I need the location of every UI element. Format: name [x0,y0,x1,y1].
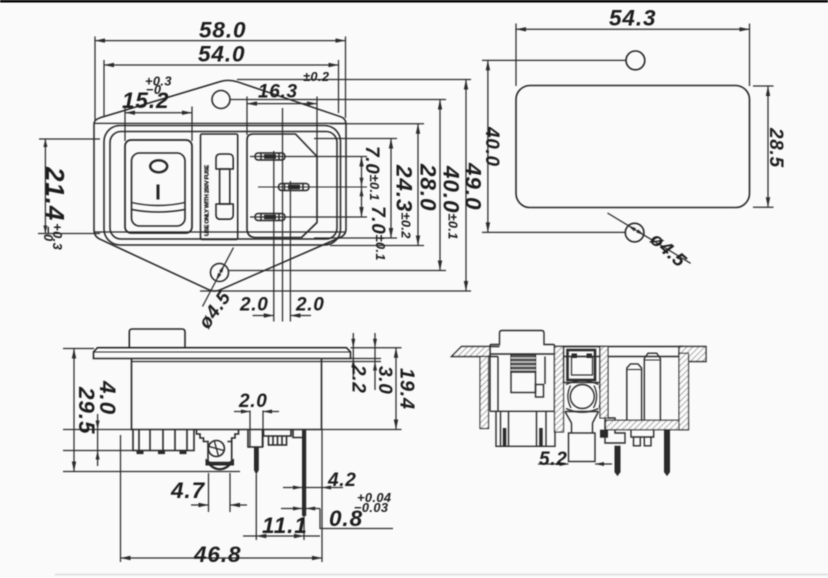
drawer bottom bar [206,460,234,466]
ext hole bottom [229,270,447,272]
fuse holder plate [201,134,238,240]
dim 54.0 [104,64,339,66]
dim 24.3 [390,139,392,239]
svg-text:USE ONLY WITH 250V FUSE: USE ONLY WITH 250V FUSE [205,165,211,236]
rocker split lines [132,203,186,206]
fuse barrel [570,385,594,409]
pin vertical ext lines [273,151,275,322]
dim 54.3 [516,28,750,30]
switch bump [490,331,555,355]
left terminal teeth [133,430,194,451]
svg-text:ø4.5: ø4.5 [195,287,236,332]
right wall [679,353,689,430]
body [132,359,322,430]
ext 54.0 [103,60,105,117]
ext pin top (7.0) [250,156,367,158]
ext 58.0 [94,37,96,121]
ext 54.3 [515,24,517,87]
bottom plate right [606,420,689,429]
svg-text:3.0: 3.0 [374,366,395,395]
svg-text:28.0: 28.0 [416,163,441,211]
dim 2.2 [352,333,354,378]
switch left wall hatch [480,357,489,429]
svg-text:7.0±0.1: 7.0±0.1 [361,146,382,201]
switch bezel [125,140,192,233]
switch base [496,411,555,446]
fuse cap top [216,154,233,169]
mounting hole bottom [211,264,229,282]
right thin pin [665,430,670,476]
rocker [132,153,186,226]
svg-text:58.0: 58.0 [199,18,246,43]
pin2 [293,430,302,438]
ext right flange [351,347,402,349]
ext left [63,348,94,350]
svg-text:54.0: 54.0 [198,42,245,67]
svg-text:±0.2: ±0.2 [303,69,329,84]
dim 4.0 [97,414,99,466]
dim 0.8 + bracket [281,508,320,510]
terminal bracket below plate [631,430,654,437]
svg-text:2.0: 2.0 [295,295,325,316]
dim 7.0/7.0 [361,157,363,218]
svg-text:28.5: 28.5 [765,127,786,168]
ext pin bottom (7.0) [250,216,367,218]
dim 28.5 [767,86,769,207]
svg-text:21.4+0.3−0: 21.4+0.3−0 [40,166,70,250]
hole centerline right [230,99,446,101]
drawer arc [210,465,230,469]
svg-text:−0: −0 [146,82,161,97]
switch pin2 [537,411,547,446]
svg-text:46.8: 46.8 [193,542,241,567]
svg-text:11.1: 11.1 [262,513,308,538]
svg-text:40.0±0.1: 40.0±0.1 [439,165,464,240]
pin centerlines [258,186,367,188]
mounting hole top [212,91,230,109]
svg-text:4.7: 4.7 [170,478,206,503]
plunger [511,372,536,393]
dim 4.2 [283,487,343,489]
flange bar [94,348,351,359]
ext face bottom [330,245,424,247]
svg-text:24.3±0.2: 24.3±0.2 [392,164,417,239]
fuse body [220,169,230,204]
flange left wing [452,347,491,357]
drawer box [569,433,596,462]
svg-text:54.3: 54.3 [609,6,656,31]
fuse divider left [555,347,564,433]
right terminal block [264,430,292,437]
svg-text:40.0: 40.0 [481,126,502,167]
fuse well [564,347,601,383]
dim 2.0 2.0 [253,315,274,317]
dim 16.3 [247,103,317,105]
svg-text:2.0: 2.0 [238,391,268,412]
dim 49.0 [465,80,467,292]
dim 40.0 panel [487,60,489,232]
right divider [600,347,608,419]
drawer stem [572,423,593,433]
pin A [627,364,642,420]
hole top [626,51,645,70]
svg-text:19.4: 19.4 [396,368,418,410]
ext 15.2 [124,107,126,142]
dim 29.5 [73,349,75,472]
spring [511,355,536,373]
dim 21.4 ext [39,138,100,140]
svg-text:ø4.5: ø4.5 [646,229,690,272]
dim 46.8 [121,557,323,559]
flange mid left [490,347,500,357]
symbol I [157,185,160,200]
svg-text:4.2: 4.2 [327,470,357,491]
svg-text:2.0: 2.0 [239,295,269,316]
ext 16.3 [246,97,248,136]
ext 28.5 [753,85,774,87]
switch pin1 [501,411,509,446]
flange seam bottom [94,231,346,233]
hole bottom [625,223,644,242]
fuse drawer steps [197,430,209,463]
panel rect [516,86,750,208]
dim 19.4 [395,348,397,430]
pin1 tab [248,430,263,448]
hole line top [482,59,626,61]
svg-text:49.0: 49.0 [461,162,486,210]
hole line bottom [482,231,625,233]
svg-text:4.0: 4.0 [95,380,120,415]
symbol O [150,160,167,172]
dim 15.2 [125,112,192,114]
ext 11.1 [255,474,257,540]
left thin pin [615,446,620,476]
screw [208,441,224,457]
flange seam top [94,122,346,124]
dim 5.2 [538,463,569,465]
L bracket [605,418,625,443]
ext face top (28.0 top) [330,123,424,125]
drawer trapezoid [565,412,599,424]
dim 11.1 [243,535,320,537]
dim 3.0 [374,333,376,390]
ext recess bottom [314,237,397,239]
ext apex (49.0 bottom) [200,290,471,292]
leader o4.5 front [203,248,234,307]
leader o4.5 panel [608,213,691,263]
dim 2.0 side [249,411,251,448]
top border bar [0,0,828,3]
ext 46.8 [120,435,122,562]
pin L middle [279,184,310,191]
svg-text:−0.03: −0.03 [354,500,388,515]
svg-text:7.0±0.1: 7.0±0.1 [367,206,388,261]
flange outline [94,80,346,291]
pin B [644,353,660,420]
face outer [104,126,341,246]
dim 58.0 [95,40,346,42]
face inner rim [110,132,337,240]
ext peak (49.0 top) [237,79,471,81]
ext recess top (24.3 top) [314,138,397,140]
svg-text:2.2: 2.2 [348,364,369,394]
IEC recess [247,134,317,238]
ext 4.7 [208,473,210,512]
fuse cap bottom [216,204,233,219]
flange mid right segment [555,347,684,357]
dim 40.0 [439,100,441,271]
flange right wing [679,347,706,362]
svg-text:5.2: 5.2 [539,449,568,470]
pin N bottom [255,214,285,221]
pin E top [255,153,285,160]
rocker bump [129,329,185,348]
switch walls [490,354,555,411]
dim 28.0 [417,124,419,246]
svg-text:16.3: 16.3 [258,82,298,103]
